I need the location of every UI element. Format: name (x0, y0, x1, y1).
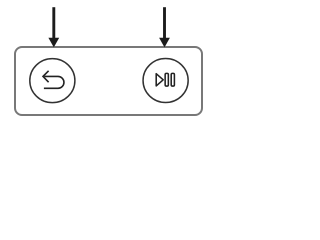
back / return icon (43, 71, 64, 89)
panel rounded rectangle (15, 47, 202, 115)
left circular button (30, 59, 75, 103)
right circular button (143, 59, 188, 103)
arrow pointing to right button (159, 7, 170, 47)
arrow pointing to left button (48, 7, 59, 47)
play/pause icon (156, 73, 174, 86)
